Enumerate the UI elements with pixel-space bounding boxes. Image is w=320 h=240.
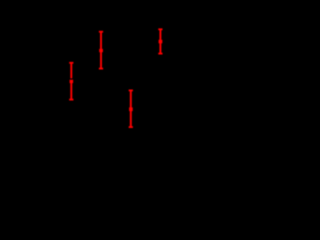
E2 bottom cap [99,68,103,70]
E3 marker [129,107,133,111]
errorbar element E2 (x=101.0) [99,32,103,69]
E1 upper error line [70,63,72,79]
E3 bottom cap [129,126,133,128]
errorbar element E3 (x=130.8) [129,90,133,127]
E1 marker [70,80,74,83]
E2 top cap [99,31,103,33]
E4 bottom cap [158,53,162,55]
E4 marker [159,40,163,44]
E1 bottom cap [69,99,73,101]
E2 marker [99,49,103,52]
errorbar element E1 (x=71.3) [69,63,73,100]
E1 top cap [69,62,73,64]
errorbar element E4 (x=160.4) [158,29,162,53]
E4 top cap [158,28,162,30]
E2 error line [100,32,102,69]
E1 lower error line [70,83,72,100]
E4 error line [159,29,161,53]
E3 error line [130,90,132,127]
E3 top cap [129,89,133,91]
